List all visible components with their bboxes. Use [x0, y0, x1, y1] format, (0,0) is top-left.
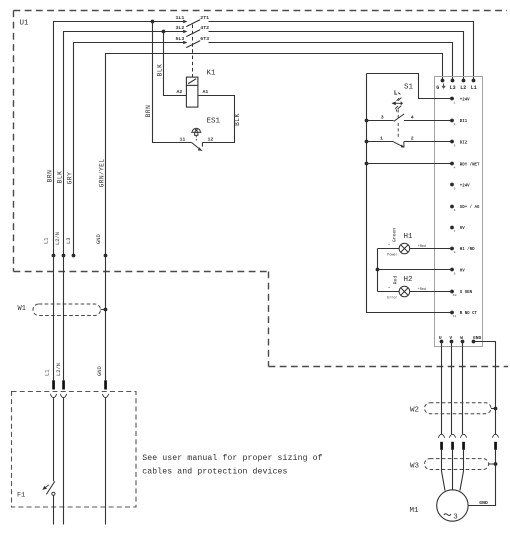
- drive top terminal GND: [441, 79, 445, 83]
- label GND (motor): [479, 500, 488, 506]
- wire L1/BRN supply: left vertical and top horizontal to contact: [54, 22, 187, 256]
- svg-text:L2/N: L2/N: [56, 363, 62, 376]
- wire H1 right lead to terminal: [410, 248, 452, 250]
- svg-text:11: 11: [180, 136, 186, 142]
- drive terminal pin 5 +24V: [450, 183, 470, 191]
- breaker F1 blade: [46, 481, 54, 494]
- label 3L2: [175, 25, 184, 31]
- svg-text:2T1: 2T1: [200, 15, 209, 21]
- svg-text:+24V: +24V: [460, 185, 470, 189]
- contact 5L3 fixed terminal chevron: [183, 41, 187, 44]
- label 4: [411, 114, 414, 120]
- label GRN/YEL (rotated): [98, 159, 105, 188]
- label L2/N at boundary node (rotated): [55, 232, 61, 245]
- svg-text:-: -: [388, 286, 391, 291]
- svg-text:L2/N: L2/N: [55, 232, 61, 245]
- svg-text:BLK: BLK: [234, 113, 241, 126]
- node W3 shield on GND wire: [494, 462, 498, 466]
- svg-text:L1: L1: [471, 85, 477, 91]
- cable W3 shield symbol (dashed capsule): [425, 459, 489, 470]
- cable lug U (bar): [440, 442, 443, 450]
- svg-text:GND: GND: [96, 234, 102, 244]
- wire L1 below breaker: [53, 495, 55, 524]
- enclosure U1 dashed border left: [13, 11, 15, 272]
- svg-text:BLK: BLK: [156, 64, 163, 77]
- wire W1 shield tail to GND: [101, 309, 106, 311]
- label BLK (rotated): [57, 171, 64, 184]
- svg-text:+24V: +24V: [460, 98, 470, 102]
- node BLK tap on wire 3L2: [162, 30, 166, 34]
- ES1 blade arrowhead: [198, 147, 203, 151]
- wire L3/GRY supply: left vertical and top horizontal to contact: [74, 43, 187, 256]
- svg-text:DI1: DI1: [460, 120, 468, 124]
- drive terminal pin 9 0V: [450, 268, 465, 276]
- S1 actuator arrowheads: [392, 101, 403, 105]
- wire lamp rail to 0V terminal: [378, 269, 453, 271]
- wire H2 left lead: [378, 291, 400, 293]
- svg-text:L3: L3: [450, 85, 456, 91]
- label ~3 inside motor: [444, 514, 458, 522]
- svg-text:cables and protection devices: cables and protection devices: [142, 466, 287, 476]
- label W1: [18, 305, 26, 313]
- S1 contact 1-2 blade arrowhead: [401, 145, 405, 148]
- svg-text:0V: 0V: [460, 227, 465, 231]
- svg-text:H1 /RD: H1 /RD: [460, 247, 475, 252]
- ES1 actuator link (dashed): [195, 135, 197, 140]
- cable W1 shield symbol (dashed capsule): [33, 304, 101, 316]
- contact 3L2 fixed terminal chevron: [183, 30, 187, 33]
- connector socket W (arc): [460, 434, 466, 438]
- svg-text:6: 6: [454, 209, 456, 212]
- wire motor phase W lower: [460, 450, 464, 491]
- S1 contact 1-2 blade: [394, 142, 405, 148]
- drive bottom terminal U: [440, 340, 444, 344]
- lamp H1 circle: [399, 243, 410, 254]
- svg-text:F1: F1: [17, 492, 25, 500]
- cable lug GND (bar): [104, 380, 107, 389]
- label +Red H1: [418, 244, 426, 249]
- cable lug GND (bar): [494, 442, 497, 450]
- svg-text:Power: Power: [387, 253, 397, 258]
- wire BRN tap down to ES1 contact 11: [153, 22, 192, 143]
- label 6T3: [200, 36, 209, 42]
- label 4T2: [200, 25, 209, 31]
- S1 contacts mechanical link (dashed): [397, 123, 399, 139]
- lamp rail vertical H1-H2: [377, 249, 379, 292]
- label Error: [387, 295, 397, 300]
- svg-text:6T3: 6T3: [200, 36, 209, 42]
- svg-text:BRN: BRN: [46, 170, 53, 183]
- wire motor phase U upper: [441, 342, 443, 435]
- drive top terminal L3: [451, 79, 455, 83]
- label BRN (rotated, control tap): [145, 105, 152, 118]
- breaker F1 trip arrow: [44, 485, 49, 489]
- label W: [460, 335, 463, 341]
- node L1 at boundary: [52, 254, 56, 258]
- wire supply L2/N lower vertical: [63, 256, 65, 381]
- wire motor phase W upper: [462, 342, 464, 435]
- drive terminal pin 10 S GEN: [450, 290, 473, 297]
- label F1: [17, 492, 25, 500]
- svg-text:GND: GND: [479, 500, 488, 506]
- svg-text:0V: 0V: [460, 270, 465, 274]
- wire BLK tap down to coil A2: [164, 32, 187, 96]
- label 1: [380, 136, 383, 142]
- label U: [439, 335, 442, 341]
- wire supply L1 lower vertical: [53, 256, 55, 381]
- svg-text:M1: M1: [410, 507, 420, 515]
- S1 contact 3-4 blade: [394, 114, 404, 121]
- S1 contact 3-4 right lead to terminal: [404, 120, 452, 122]
- drive terminal pin 11 R NO CT: [450, 311, 477, 319]
- svg-text:L1: L1: [44, 370, 50, 376]
- enclosure U1 dashed border lower horizontal: [269, 366, 509, 368]
- svg-text:9: 9: [454, 273, 456, 276]
- fuse box F1 dashed border: [12, 392, 137, 508]
- svg-text:DI2: DI2: [460, 142, 468, 146]
- label Red (rotated): [392, 276, 398, 285]
- svg-text:G: G: [436, 85, 439, 91]
- label 2: [411, 136, 414, 142]
- drive top terminal L1: [472, 79, 476, 83]
- svg-text:-: -: [388, 243, 391, 248]
- label Green (rotated): [391, 228, 397, 243]
- svg-text:BLK: BLK: [57, 171, 64, 184]
- wire L2/BLK supply: left vertical and top horizontal to contact: [64, 32, 187, 256]
- note text line 2: [142, 466, 287, 476]
- svg-text:U: U: [439, 335, 442, 341]
- connector socket U (arc): [438, 434, 444, 438]
- wire GND inside and below fuse box: [105, 398, 107, 525]
- drive terminal pin 7 0V: [450, 226, 465, 234]
- svg-text:W3: W3: [410, 462, 420, 470]
- label 11: [180, 136, 186, 142]
- label U1: [20, 20, 30, 28]
- switch S1 supply rail (left vertical): [367, 74, 453, 313]
- label W3: [410, 462, 420, 470]
- wire GND/GRN-YEL supply: vertical and top horizontal to drive GND terminal: [106, 54, 443, 381]
- svg-text:1: 1: [454, 101, 456, 104]
- svg-text:A1: A1: [203, 89, 209, 95]
- svg-text:8: 8: [454, 251, 456, 254]
- node BRN tap on wire 1L1: [151, 20, 155, 24]
- svg-text:H1: H1: [404, 233, 414, 241]
- connector socket GND (arc): [492, 434, 498, 438]
- breaker F1 contact circle: [52, 492, 55, 495]
- wire H2 right lead to terminal: [410, 291, 452, 293]
- label GND (drive bottom): [473, 335, 482, 341]
- wire L2 after contact to drive terminal L2: [209, 32, 464, 81]
- S1 contact 1-2 right lead to terminal: [404, 141, 452, 143]
- motor M1 circle: [437, 490, 468, 521]
- enclosure U1 dashed border top: [14, 10, 508, 12]
- contactor K1 main contact 5L3-6T3: [186, 41, 200, 48]
- node S1 rail third row: [365, 162, 369, 166]
- label BLK (rotated, control tap): [156, 64, 163, 77]
- label 3: [381, 114, 384, 120]
- svg-text:2: 2: [454, 123, 456, 126]
- svg-text:11: 11: [453, 315, 457, 318]
- drive bottom terminal W: [461, 340, 465, 344]
- label GRY (rotated): [67, 172, 74, 185]
- wire L2/N inside and below fuse box: [63, 398, 65, 525]
- label H1: [404, 233, 414, 241]
- node W1 shield on GND wire: [104, 308, 108, 312]
- drive terminal pin 6 SD+/AG: [450, 205, 480, 212]
- svg-text:10: 10: [453, 294, 457, 297]
- connector plug GND (arc): [102, 394, 108, 398]
- svg-text:L2: L2: [460, 85, 466, 91]
- svg-text:RDY /NET: RDY /NET: [460, 162, 480, 167]
- enclosure U1 dashed border lower-left horizontal: [14, 271, 269, 273]
- wire motor phase V upper: [451, 342, 453, 435]
- svg-text:Red: Red: [392, 276, 398, 285]
- label M1: [410, 507, 420, 515]
- node S1 rail row 1-2: [365, 140, 369, 144]
- coil K1 rectangle: [186, 77, 198, 107]
- lamp H2 circle: [399, 286, 410, 297]
- svg-text:W2: W2: [410, 407, 419, 415]
- ES1 NC contact blade: [192, 143, 203, 151]
- svg-text:7: 7: [454, 230, 456, 233]
- node W2 shield on GND wire: [494, 407, 498, 411]
- svg-text:3: 3: [381, 114, 384, 120]
- label +Red H2: [418, 287, 426, 292]
- node S1 rail row 3-4: [365, 119, 369, 123]
- label GND (above lugs, rotated): [97, 366, 103, 376]
- svg-text:3: 3: [454, 145, 456, 148]
- connector socket V (arc): [449, 434, 455, 438]
- svg-text:GND: GND: [473, 335, 482, 341]
- label L1 (above lugs, rotated): [44, 370, 50, 376]
- svg-text:GRN/YEL: GRN/YEL: [98, 159, 105, 188]
- svg-text:L1: L1: [44, 238, 50, 244]
- label GND (drive top, earth glyph): [436, 84, 445, 92]
- svg-text:2: 2: [411, 136, 414, 142]
- label minus H1: [388, 243, 391, 248]
- svg-text:4: 4: [454, 166, 456, 169]
- svg-text:W: W: [460, 335, 463, 341]
- drive bottom terminal GND: [472, 340, 476, 344]
- svg-text:W1: W1: [18, 305, 26, 313]
- breaker F1 trip arrowhead: [42, 486, 47, 490]
- S1 contact 3-4 left lead: [367, 120, 394, 122]
- cable lug W (bar): [462, 442, 465, 450]
- wire W3 shield tail to GND: [489, 463, 496, 465]
- node L3 at boundary: [72, 254, 76, 258]
- enclosure U1 dashed border middle vertical: [268, 272, 270, 367]
- node lamp rail 0V: [376, 268, 380, 272]
- svg-text:4T2: 4T2: [200, 25, 209, 31]
- drive terminal pin 1 +24V: [450, 97, 470, 105]
- label L1 (drive top): [471, 85, 477, 91]
- label 5L3: [175, 36, 184, 42]
- svg-text:See user manual for proper siz: See user manual for proper sizing of: [142, 453, 322, 463]
- label S1: [404, 84, 414, 92]
- label minus H2: [388, 286, 391, 291]
- cable lug L1 (bar): [52, 380, 55, 389]
- svg-text:3: 3: [453, 514, 457, 522]
- svg-text:GRY: GRY: [67, 172, 74, 185]
- svg-text:Green: Green: [391, 228, 397, 243]
- label BLK (rotated, A1 wire): [234, 113, 241, 126]
- mechanical link from main contacts to coil K1 (dashed): [192, 25, 194, 78]
- label L3 at boundary node (rotated): [66, 238, 72, 244]
- contactor K1 main contact 3L2-4T2: [186, 30, 200, 37]
- svg-text:4: 4: [411, 114, 414, 120]
- svg-text:S GEN: S GEN: [460, 291, 473, 295]
- label 1L1: [175, 15, 184, 21]
- S1 contact 1-2 left lead: [367, 141, 394, 143]
- emergency stop ES1 label: [207, 118, 221, 126]
- S1 actuator link (dashed): [397, 110, 399, 120]
- wire motor phase U lower: [442, 450, 446, 491]
- label Power: [387, 253, 397, 258]
- connector plug L1 (arc): [50, 394, 56, 398]
- label GND at boundary node (rotated): [96, 234, 102, 244]
- drive terminal pin 3 DI2: [450, 140, 468, 148]
- wire L1 after contact to drive terminal L1: [209, 22, 474, 81]
- svg-text:K1: K1: [207, 70, 217, 78]
- wire L1 inside fuse box: [53, 398, 55, 482]
- drive bottom terminal V: [450, 340, 454, 344]
- label H2: [404, 276, 413, 284]
- drive terminal pin 2 DI1: [450, 119, 468, 127]
- note text line 1: [142, 453, 322, 463]
- wire S1 rail top to drive terminal +24V: [367, 74, 453, 99]
- label 12: [208, 136, 214, 142]
- ES1 mushroom head actuator: [191, 128, 201, 135]
- drive unit enclosure box: [435, 77, 483, 347]
- wire L3 after contact to drive terminal L3: [209, 43, 453, 81]
- label L3 (drive top): [450, 85, 456, 91]
- label A2: [177, 89, 183, 95]
- node GND at boundary: [104, 254, 108, 258]
- label K1: [207, 70, 217, 78]
- svg-text:V: V: [449, 335, 452, 341]
- svg-text:12: 12: [208, 136, 214, 142]
- wire coil A1 to ES1 contact 12 (BLK): [198, 96, 235, 143]
- label A1: [203, 89, 209, 95]
- svg-text:3L2: 3L2: [175, 25, 184, 31]
- svg-text:R NO CT: R NO CT: [460, 312, 478, 316]
- svg-text:5: 5: [454, 188, 456, 191]
- svg-text:GND: GND: [97, 366, 103, 376]
- label L2/N (above lugs, rotated): [56, 363, 62, 376]
- connector plug L2/N (arc): [60, 394, 66, 398]
- label BRN (rotated): [46, 170, 53, 183]
- svg-text:1: 1: [380, 136, 383, 142]
- svg-text:A2: A2: [177, 89, 183, 95]
- label L1 at boundary node (rotated): [44, 238, 50, 244]
- drive top terminal L2: [462, 79, 466, 83]
- svg-text:1L1: 1L1: [175, 15, 184, 21]
- wire motor GND lower: [468, 450, 495, 506]
- cable lug L2/N (bar): [62, 380, 65, 389]
- wire H1 left lead to lamp rail: [378, 248, 400, 250]
- wire W2 shield tail to GND: [491, 408, 496, 410]
- wire S1 rail to drive terminal RDY: [367, 163, 453, 165]
- label V: [449, 335, 452, 341]
- wire motor phase V lower: [452, 450, 454, 490]
- contact 1L1 fixed terminal chevron: [183, 20, 187, 23]
- svg-text:ES1: ES1: [207, 118, 221, 126]
- svg-text:BRN: BRN: [145, 105, 152, 118]
- svg-text:L3: L3: [66, 238, 72, 244]
- label W2: [410, 407, 419, 415]
- drive terminal pin 8 H1/RD: [450, 247, 475, 255]
- svg-text:5L3: 5L3: [175, 36, 184, 42]
- S1 rotary actuator symbol: [393, 90, 402, 111]
- svg-text:SD+ / AG: SD+ / AG: [460, 205, 480, 210]
- label 2T1: [200, 15, 209, 21]
- svg-text:H2: H2: [404, 276, 413, 284]
- svg-text:S1: S1: [404, 84, 414, 92]
- label L2 (drive top): [460, 85, 466, 91]
- node L2/N at boundary: [62, 254, 66, 258]
- svg-text:Error: Error: [387, 295, 397, 300]
- wire motor GND from drive to motor: [474, 342, 496, 435]
- cable lug V (bar): [451, 442, 454, 450]
- cable W2 shield symbol (dashed capsule): [425, 403, 492, 414]
- contactor K1 main contact 1L1-2T1: [186, 20, 200, 27]
- drive terminal pin 4 RDY/NET: [450, 162, 480, 170]
- svg-text:U1: U1: [20, 20, 30, 28]
